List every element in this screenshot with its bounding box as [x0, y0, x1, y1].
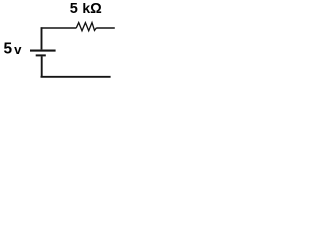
svg-text:5: 5: [70, 1, 78, 17]
svg-text:Ω: Ω: [90, 1, 102, 17]
svg-text:v: v: [14, 42, 22, 57]
svg-text:5: 5: [4, 41, 13, 58]
